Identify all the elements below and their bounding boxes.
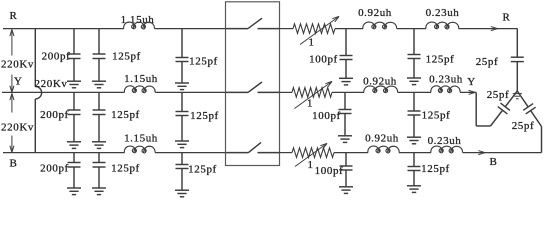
svg-text:25pf: 25pf <box>512 120 535 132</box>
svg-text:220Kv: 220Kv <box>35 78 68 90</box>
wire vertical feeder with crossover hop <box>35 29 41 153</box>
label 100pf B row <box>315 165 344 177</box>
svg-text:0.92uh: 0.92uh <box>365 133 399 145</box>
capacitor 125pf B row mid <box>175 153 189 197</box>
svg-text:R: R <box>503 12 511 24</box>
label 125pf B row mid <box>188 164 217 176</box>
label 1 B row <box>307 159 313 171</box>
svg-text:125pf: 125pf <box>189 56 218 68</box>
wire Y bus to corner <box>460 90 476 94</box>
arrow down to B bus <box>10 136 14 153</box>
svg-text:B: B <box>490 156 498 168</box>
arrow through resistor B <box>295 143 327 166</box>
label 0.23uh Y row <box>429 74 463 86</box>
wire Y bus after resistor <box>332 91 364 93</box>
label 1 Y row <box>307 98 313 110</box>
label 25pf B diagonal <box>512 120 535 132</box>
svg-text:1.15uh: 1.15uh <box>124 73 158 85</box>
svg-text:125pf: 125pf <box>112 51 141 63</box>
wire B bus left <box>3 152 226 154</box>
svg-text:125pf: 125pf <box>426 54 455 66</box>
wire R bus left <box>3 28 226 30</box>
svg-text:R: R <box>10 10 18 22</box>
label 200pf B row <box>40 163 69 175</box>
svg-text:125pf: 125pf <box>190 110 219 122</box>
inductor 0.92uh Y row <box>364 86 398 93</box>
svg-text:25pf: 25pf <box>476 56 499 68</box>
svg-text:100pf: 100pf <box>315 165 344 177</box>
svg-text:125pf: 125pf <box>422 110 451 122</box>
svg-text:1: 1 <box>307 159 313 171</box>
label 220Kv Y-B <box>1 122 34 134</box>
label B right <box>490 156 498 168</box>
svg-text:0.23uh: 0.23uh <box>428 135 462 147</box>
arrow down to Y bus <box>10 75 14 93</box>
svg-text:100pf: 100pf <box>309 54 338 66</box>
svg-text:0.23uh: 0.23uh <box>426 7 460 19</box>
wire R corner down <box>516 29 518 91</box>
node Y label <box>14 76 23 88</box>
wire B bus after resistor <box>334 152 368 154</box>
svg-text:100pf: 100pf <box>312 110 341 122</box>
inductor 1.15uh Y row <box>124 86 155 93</box>
label 125pf Y row <box>111 109 140 121</box>
switch B phase <box>226 142 280 152</box>
wire Y bus mid <box>398 91 431 93</box>
arrow up at Y bus <box>10 93 14 112</box>
label 25pf vertical <box>476 56 499 68</box>
capacitor 125pf Y row mid <box>175 92 189 147</box>
label 125pf R row mid <box>189 56 218 68</box>
label 1 R row <box>308 37 314 49</box>
capacitor 125pf B row right <box>407 153 421 193</box>
label 220Kv R-Y <box>1 59 34 71</box>
node R label <box>10 10 18 22</box>
label 0.92uh Y row <box>363 76 397 88</box>
switch Y phase <box>226 82 280 92</box>
label 1.15uh R row <box>121 14 155 26</box>
variable resistor Y row <box>292 88 332 98</box>
label 200pf Y row <box>40 109 69 121</box>
variable resistor B row <box>292 148 334 158</box>
wire Y branch <box>476 92 490 126</box>
variable resistor R row <box>293 24 335 34</box>
svg-text:25pf: 25pf <box>487 89 510 101</box>
capacitor 25pf Y diagonal <box>491 91 518 126</box>
svg-text:200pf: 200pf <box>40 163 69 175</box>
inductor 0.23uh B row <box>431 146 463 153</box>
inductor 0.23uh Y row <box>431 86 460 93</box>
wire Y bus left <box>2 91 226 93</box>
capacitor 25pf R vertical plates <box>511 57 524 61</box>
wire B bus to corner <box>463 151 542 155</box>
wire R bus to resistor <box>280 28 294 30</box>
inductor 1.15uh B row <box>124 146 155 153</box>
svg-text:125pf: 125pf <box>188 164 217 176</box>
arrow through resistor R <box>300 16 339 44</box>
label 100pf R row <box>309 54 338 66</box>
svg-text:125pf: 125pf <box>111 109 140 121</box>
svg-text:1: 1 <box>307 98 313 110</box>
wire R bus after resistor <box>335 28 363 30</box>
capacitor 125pf Y row right <box>407 92 421 143</box>
label 125pf Y row right <box>422 110 451 122</box>
label 1.15uh Y row <box>124 73 158 85</box>
circuit breaker box <box>226 2 280 166</box>
svg-text:220Kv: 220Kv <box>1 122 34 134</box>
wire R bus mid <box>397 28 426 30</box>
wire B bus mid <box>399 152 431 154</box>
label 125pf Y row mid <box>190 110 219 122</box>
switch R phase <box>226 18 280 28</box>
arrow up to R bus <box>10 29 14 55</box>
svg-text:0.92uh: 0.92uh <box>358 7 392 19</box>
node B label <box>10 158 18 170</box>
label Y right <box>467 76 476 88</box>
svg-text:1.15uh: 1.15uh <box>121 14 155 26</box>
capacitor 200pf Y row <box>67 92 81 148</box>
label 125pf R row right <box>426 54 455 66</box>
inductor 0.23uh R row <box>426 22 459 29</box>
label 0.23uh R row <box>426 7 460 19</box>
wire B bus to resistor <box>280 152 293 154</box>
label 125pf B row right <box>421 163 450 175</box>
capacitor 125pf R row mid <box>175 29 189 90</box>
svg-text:Y: Y <box>467 76 476 88</box>
label 0.92uh R row <box>358 7 392 19</box>
ground at junction <box>513 94 522 99</box>
capacitor 125pf Y row <box>92 92 106 148</box>
svg-text:Y: Y <box>14 76 23 88</box>
svg-text:200pf: 200pf <box>42 51 71 63</box>
svg-text:B: B <box>10 158 18 170</box>
inductor 0.92uh B row <box>368 146 399 153</box>
label 1.15uh B row <box>124 133 158 145</box>
label R right <box>503 12 511 24</box>
label 200pf R row <box>42 51 71 63</box>
label 125pf B row <box>111 163 140 175</box>
label 0.23uh B row <box>428 135 462 147</box>
capacitor 100pf R row <box>339 29 353 85</box>
capacitor 125pf R row <box>92 29 106 88</box>
inductor 1.15uh R row <box>124 22 155 29</box>
capacitor 200pf B row <box>67 153 81 195</box>
label 25pf Y diagonal <box>487 89 510 101</box>
capacitor 125pf B row <box>92 153 106 195</box>
capacitor 125pf R row right <box>407 29 421 85</box>
capacitor 200pf R row <box>67 29 81 88</box>
inductor 0.92uh R row <box>363 22 397 29</box>
label 125pf R row <box>112 51 141 63</box>
label 220Kv mid <box>35 78 68 90</box>
svg-text:200pf: 200pf <box>40 109 69 121</box>
svg-text:1.15uh: 1.15uh <box>124 133 158 145</box>
svg-text:220Kv: 220Kv <box>1 59 34 71</box>
arrow through resistor Y <box>295 81 333 108</box>
svg-text:125pf: 125pf <box>111 163 140 175</box>
wire Y bus to resistor <box>280 91 293 93</box>
label 100pf Y row <box>312 110 341 122</box>
capacitor 100pf B row <box>339 153 353 194</box>
wire B branch <box>541 127 543 153</box>
capacitor 25pf B diagonal <box>517 91 541 127</box>
svg-text:125pf: 125pf <box>421 163 450 175</box>
svg-text:0.23uh: 0.23uh <box>429 74 463 86</box>
capacitor 100pf Y row <box>338 92 352 142</box>
wire R bus to corner <box>458 27 517 31</box>
svg-text:1: 1 <box>308 37 314 49</box>
label 0.92uh B row <box>365 133 399 145</box>
